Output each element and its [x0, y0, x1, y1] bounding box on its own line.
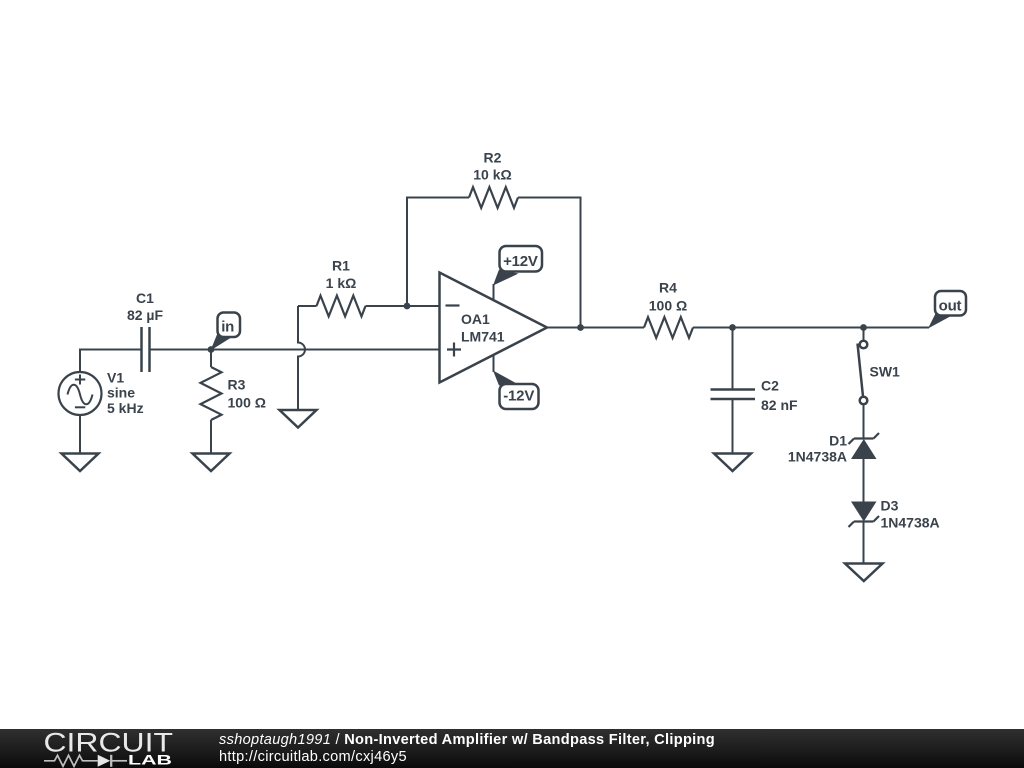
svg-text:-12V: -12V	[503, 388, 534, 405]
svg-text:C2: C2	[761, 378, 779, 394]
zener diode D3	[849, 502, 880, 528]
switch SW1	[858, 328, 868, 405]
wire R2 right to output node	[518, 198, 581, 329]
svg-text:R1: R1	[332, 258, 350, 274]
ground for R1 branch	[280, 410, 317, 428]
svg-text:10 kΩ: 10 kΩ	[473, 167, 511, 183]
wire down to C2	[732, 328, 734, 390]
wire R1 left branch with hop over main wire	[298, 306, 305, 410]
ground for R3	[193, 454, 230, 472]
wire SW1 to D1	[863, 405, 865, 439]
net flag in	[211, 313, 241, 351]
zener diode D1	[849, 433, 880, 459]
svg-text:R4: R4	[659, 280, 677, 296]
wire op-amp output	[547, 327, 644, 329]
net flag out	[928, 291, 966, 329]
wire C2 to ground	[732, 399, 734, 454]
svg-text:LM741: LM741	[461, 329, 505, 345]
wire D3 to ground	[863, 522, 865, 564]
capacitor C2	[711, 390, 756, 400]
svg-text:D1: D1	[829, 433, 847, 449]
capacitor C1	[142, 327, 150, 372]
wire C1 to node in	[150, 349, 212, 351]
junction R1/R2	[404, 303, 411, 310]
footer bar	[0, 729, 1024, 768]
svg-text:82 nF: 82 nF	[761, 397, 798, 413]
svg-text:1N4738A: 1N4738A	[881, 515, 940, 531]
svg-text:sine: sine	[107, 385, 135, 401]
wire R3 to ground	[210, 420, 212, 454]
svg-text:1 kΩ: 1 kΩ	[326, 275, 357, 291]
ground for C2	[714, 454, 751, 472]
wire V1 top to C1	[80, 350, 142, 373]
junction output/R2	[577, 324, 584, 331]
wire R1 left lead	[298, 305, 317, 307]
resistor R3	[201, 367, 222, 420]
ground for D3	[845, 564, 883, 582]
svg-text:LAB: LAB	[128, 753, 172, 768]
resistor R4	[644, 317, 693, 338]
wire node to op-amp + input	[211, 349, 440, 351]
resistor R1	[317, 296, 366, 317]
svg-text:+12V: +12V	[503, 253, 538, 270]
svg-text:100 Ω: 100 Ω	[228, 394, 266, 410]
ground for V1	[62, 454, 99, 472]
net flag +12V	[493, 246, 542, 286]
svg-text:C1: C1	[136, 290, 154, 306]
junction node in	[208, 346, 215, 353]
wire node to R3	[210, 350, 212, 368]
svg-text:R2: R2	[484, 150, 502, 166]
svg-text:R3: R3	[228, 377, 246, 393]
svg-text:5 kHz: 5 kHz	[107, 400, 144, 416]
op-amp OA1	[440, 273, 548, 383]
voltage source V1	[59, 372, 102, 415]
CircuitLab logo	[0, 729, 210, 768]
wire V1 bottom	[79, 415, 81, 454]
svg-text:D3: D3	[881, 498, 899, 514]
junction C2	[729, 324, 736, 331]
supply pin +12V	[493, 284, 495, 301]
wire R4 to out flag	[693, 327, 929, 329]
svg-text:in: in	[221, 319, 234, 336]
svg-text:SW1: SW1	[870, 364, 901, 380]
wire R2 loop left and top	[407, 198, 469, 307]
net flag -12V	[493, 371, 539, 410]
svg-text:OA1: OA1	[461, 311, 490, 327]
wire R1 to op-amp - input	[366, 305, 440, 307]
svg-text:82 µF: 82 µF	[127, 307, 164, 323]
svg-text:V1: V1	[107, 370, 124, 386]
svg-text:100 Ω: 100 Ω	[649, 298, 687, 314]
resistor R2	[469, 187, 518, 208]
svg-text:1N4738A: 1N4738A	[788, 449, 847, 465]
wire D1 to D3	[863, 458, 865, 502]
svg-text:out: out	[939, 298, 962, 315]
supply pin -12V	[493, 355, 495, 372]
junction SW1	[860, 324, 867, 331]
